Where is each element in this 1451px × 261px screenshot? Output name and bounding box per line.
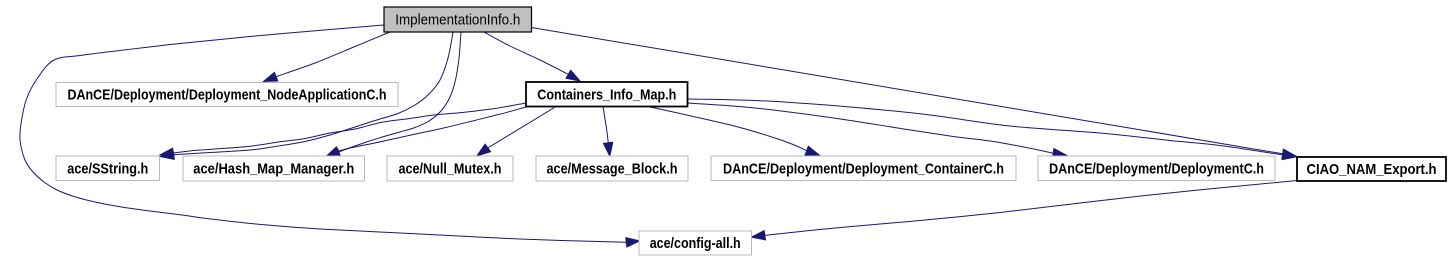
svg-text:DAnCE/Deployment/Deployment_Co: DAnCE/Deployment/Deployment_ContainerC.h (723, 160, 1004, 177)
wire Containers_Info_Map.h->ace/SString.h (160, 103, 526, 158)
wire Containers_Info_Map.h->ace/Null_Mutex.h (477, 107, 556, 156)
svg-text:ace/Message_Block.h: ace/Message_Block.h (547, 161, 678, 178)
node ace/Message_Block.h (536, 156, 688, 181)
svg-text:Containers_Info_Map.h: Containers_Info_Map.h (537, 86, 676, 103)
node ImplementationInfo.h (384, 7, 532, 32)
wire Containers_Info_Map.h->DeploymentC.h (688, 103, 1067, 158)
svg-text:ace/config-all.h: ace/config-all.h (650, 235, 741, 252)
node CIAO_NAM_Export.h (1297, 157, 1446, 181)
node ace/config-all.h (639, 231, 752, 255)
svg-text:DAnCE/Deployment/DeploymentC.h: DAnCE/Deployment/DeploymentC.h (1049, 160, 1264, 177)
node ace/SString.h (56, 156, 160, 181)
svg-text:ace/SString.h: ace/SString.h (67, 160, 148, 177)
node ace/Null_Mutex.h (387, 156, 513, 181)
svg-text:DAnCE/Deployment/Deployment_No: DAnCE/Deployment/Deployment_NodeApplicat… (68, 87, 387, 104)
node DeploymentC.h (1038, 156, 1275, 181)
wire Containers_Info_Map.h->CIAO_NAM_Export.h (688, 99, 1296, 160)
svg-text:ace/Null_Mutex.h: ace/Null_Mutex.h (399, 161, 502, 178)
wire Containers_Info_Map.h->ace/Hash_Map_Manager.h (327, 107, 527, 158)
svg-text:CIAO_NAM_Export.h: CIAO_NAM_Export.h (1307, 161, 1437, 178)
svg-text:ImplementationInfo.h: ImplementationInfo.h (395, 12, 520, 29)
node Containers_Info_Map.h (526, 82, 688, 107)
wire CIAO_NAM_Export.h->ace/config-all.h (752, 181, 1298, 240)
wire Containers_Info_Map.h->Deployment_ContainerC.h (648, 107, 819, 156)
svg-text:ace/Hash_Map_Manager.h: ace/Hash_Map_Manager.h (193, 161, 354, 178)
wire ImplementationInfo.h->Containers_Info_Map.h (484, 32, 580, 81)
wire Containers_Info_Map.h->ace/Message_Block.h (603, 107, 613, 157)
wire ImplementationInfo.h->ace/SString.h (160, 32, 453, 159)
wire ImplementationInfo.h->Deployment_NodeApplicationC.h (264, 32, 391, 82)
wire ImplementationInfo.h->ace/Hash_Map_Manager.h (326, 32, 461, 157)
wire ImplementationInfo.h->ace/config-all.h (20, 25, 640, 247)
node ace/Hash_Map_Manager.h (183, 156, 365, 181)
node Deployment_NodeApplicationC.h (56, 83, 398, 107)
node Deployment_ContainerC.h (711, 156, 1016, 181)
wire ImplementationInfo.h->CIAO_NAM_Export.h (532, 28, 1297, 159)
